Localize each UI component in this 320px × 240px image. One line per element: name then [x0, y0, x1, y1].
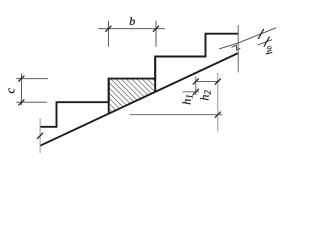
hatched step right edge (riser extended to soffit): [154, 57, 156, 92]
b right extension line: [155, 21, 157, 47]
h1 dimension line (vertical, short): [195, 77, 197, 95]
svg-text:b: b: [129, 14, 135, 28]
hatched step block fill: [109, 79, 156, 114]
h1 bottom tick: [193, 89, 199, 95]
h1 top tick: [193, 79, 199, 85]
tick on bottom-left extension: [37, 133, 43, 139]
tick on lower segment: [264, 37, 270, 47]
svg-text:c: c: [4, 87, 18, 93]
c top extension line: [16, 78, 48, 80]
stair profile (bold treads and risers): [40, 34, 238, 127]
extension line at top tread end: [237, 25, 239, 73]
top horizontal reference line (between h1 and h2): [196, 81, 220, 83]
dimension c: dimension line: [20, 73, 22, 105]
dimension b: dimension line: [98, 28, 165, 30]
c top tick: [18, 76, 24, 82]
b left tick: [105, 26, 111, 32]
short lower parallel segment (waist reference): [258, 40, 272, 45]
h2 dimension line (vertical): [217, 73, 219, 132]
c bottom extension line: [16, 101, 47, 103]
bottom horizontal reference line (soffit corner level): [130, 114, 223, 116]
tick on upper line: [258, 29, 264, 39]
b left extension line: [107, 21, 109, 47]
h2 bottom tick: [215, 112, 221, 118]
b right tick: [153, 26, 159, 32]
break symbol (Z-jog) on pitch line: [231, 45, 240, 50]
middle horizontal reference line (h1 lower level): [183, 91, 199, 93]
c bottom tick: [18, 99, 24, 105]
h2 top tick: [215, 79, 221, 85]
upper thin line (pitch continuation, offset after break): [219, 28, 276, 49]
extension line at pitch line start (bottom left): [39, 118, 41, 153]
hatched step left edge (riser extended to soffit): [108, 79, 110, 114]
pitch / soffit line (bold diagonal): [40, 53, 238, 146]
